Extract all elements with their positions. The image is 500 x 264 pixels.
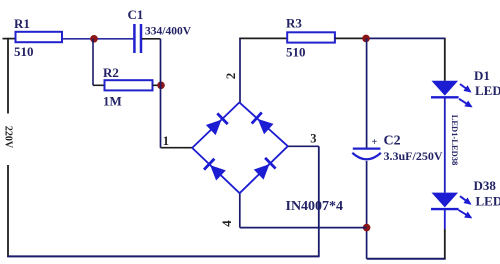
- svg-text:510: 510: [286, 45, 306, 60]
- svg-text:LED1-LED38: LED1-LED38: [450, 115, 460, 166]
- svg-text:3.3uF/250V: 3.3uF/250V: [384, 149, 443, 163]
- svg-text:3: 3: [310, 132, 316, 146]
- svg-text:1: 1: [163, 134, 169, 148]
- svg-text:R3: R3: [286, 16, 302, 31]
- svg-text:D38: D38: [474, 178, 497, 193]
- svg-text:+: +: [372, 137, 378, 148]
- svg-text:510: 510: [14, 44, 34, 59]
- svg-text:R1: R1: [14, 16, 30, 31]
- svg-text:2: 2: [223, 73, 238, 80]
- svg-text:C1: C1: [128, 7, 144, 22]
- svg-text:C2: C2: [384, 134, 401, 149]
- svg-text:LED: LED: [476, 194, 500, 209]
- svg-text:D1: D1: [474, 68, 490, 83]
- svg-text:220V: 220V: [3, 126, 14, 149]
- svg-text:IN4007*4: IN4007*4: [286, 199, 344, 214]
- svg-text:LED: LED: [475, 83, 500, 98]
- svg-text:334/400V: 334/400V: [145, 26, 192, 38]
- svg-text:R2: R2: [103, 65, 119, 80]
- svg-text:1M: 1M: [103, 94, 122, 109]
- svg-text:4: 4: [219, 220, 234, 227]
